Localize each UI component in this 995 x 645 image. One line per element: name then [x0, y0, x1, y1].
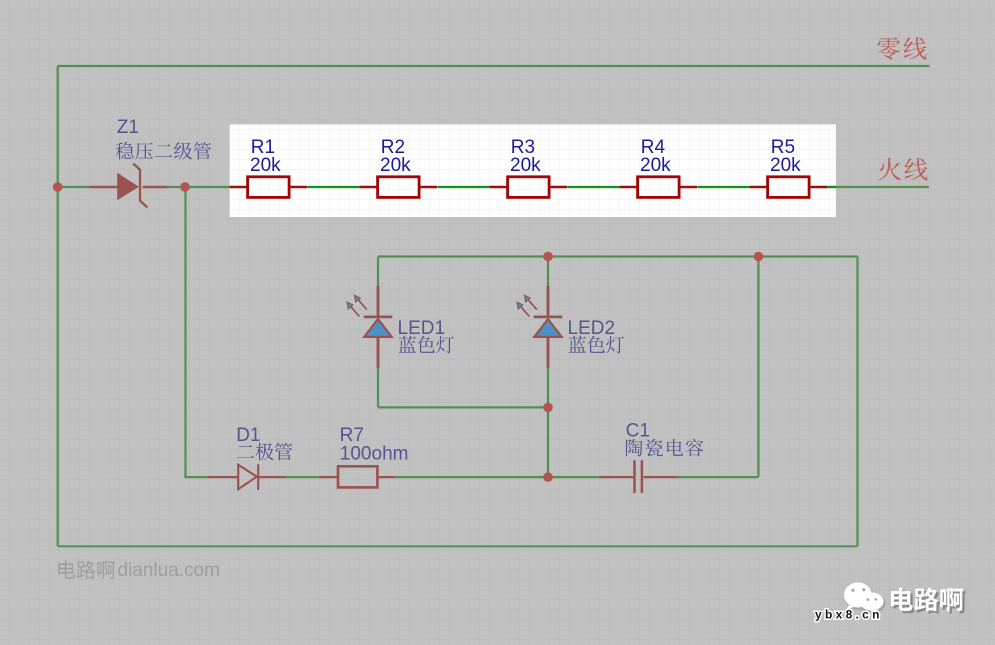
diode D1 [208, 425, 285, 490]
junction: LED2 top / top rail [543, 252, 553, 262]
triangle [534, 319, 561, 337]
resistor R2 [360, 137, 438, 198]
svg-text:ybx8.cn: ybx8.cn [815, 608, 883, 622]
wire: left vertical [57, 66, 59, 546]
svg-text:LED2: LED2 [568, 318, 616, 339]
watermark 电路啊 CJK part [58, 561, 115, 579]
junction: neutral rail / Z1 anode row [53, 182, 63, 192]
resistor R7 [319, 425, 408, 487]
wire: right vertical [856, 257, 858, 547]
resistor R3 [490, 137, 567, 198]
svg-text:C1: C1 [626, 421, 650, 442]
wire red stubs [547, 286, 550, 368]
LED LED1 (blue) [347, 286, 445, 368]
svg-text:20k: 20k [770, 155, 801, 176]
net label 零线 (neutral) [877, 37, 926, 59]
junction: top rail / right-mid vertical [754, 252, 764, 262]
junction: LED2 bottom / LED bottom rail [543, 403, 553, 413]
resistor R1 [230, 137, 308, 198]
LED2 value label 蓝色灯 [568, 336, 624, 354]
wire: live row green segments [58, 186, 929, 188]
D1 value label 二极管 [237, 443, 292, 461]
emission arrow 2 [351, 307, 359, 316]
C1 value label 陶瓷电容 [626, 439, 703, 457]
Z1 value label 稳压二级管 [116, 142, 211, 160]
svg-text:Z1: Z1 [117, 117, 139, 138]
wire: mid-left vertical from Z1 junction [186, 187, 209, 477]
svg-text:LED1: LED1 [398, 318, 446, 339]
LED1 value label 蓝色灯 [398, 336, 454, 354]
svg-text:20k: 20k [640, 155, 671, 176]
wire: LED1 vertical [377, 257, 379, 408]
wire: right-mid vertical [757, 257, 759, 478]
cathode bar [534, 315, 563, 318]
zener Z1 [90, 117, 168, 208]
net label 火线 (live) [878, 158, 927, 180]
white band behind R1-R5 [230, 124, 836, 217]
resistor R5 [750, 137, 828, 198]
svg-text:D1: D1 [236, 425, 260, 446]
emission arrow 2 [521, 307, 529, 316]
logo text 电路啊 [891, 587, 963, 611]
cathode bar [364, 315, 393, 318]
wire: bottom [58, 545, 858, 547]
svg-text:dianlua.com: dianlua.com [118, 560, 220, 581]
LED LED2 (blue) [517, 286, 615, 368]
svg-text:20k: 20k [510, 155, 541, 176]
wire red stubs [377, 286, 380, 368]
wire: neutral top [58, 65, 930, 67]
svg-text:20k: 20k [250, 155, 281, 176]
svg-text:100ohm: 100ohm [340, 444, 409, 465]
wire: bottom row green segments [285, 476, 758, 478]
capacitor C1 [600, 421, 679, 494]
wire: LED2 vertical [547, 257, 549, 408]
emission arrow 1 [359, 300, 367, 309]
logo text 电路啊 shadow [893, 590, 965, 614]
junction: LED branch / bottom component row [543, 472, 553, 482]
svg-text:20k: 20k [380, 155, 411, 176]
wire: live row green segments between R1..R5 (white band) [307, 186, 836, 188]
emission arrow 1 [529, 300, 537, 309]
wire: LED bottom rail [378, 406, 548, 408]
wire: LED2 down to bottom row [547, 407, 549, 477]
logo WeChat bubbles icon [844, 583, 885, 615]
triangle [364, 319, 391, 337]
junction: Z1 cathode / mid-left vertical [180, 182, 190, 192]
resistor R4 [620, 137, 698, 198]
wire: LED top rail [378, 255, 858, 257]
